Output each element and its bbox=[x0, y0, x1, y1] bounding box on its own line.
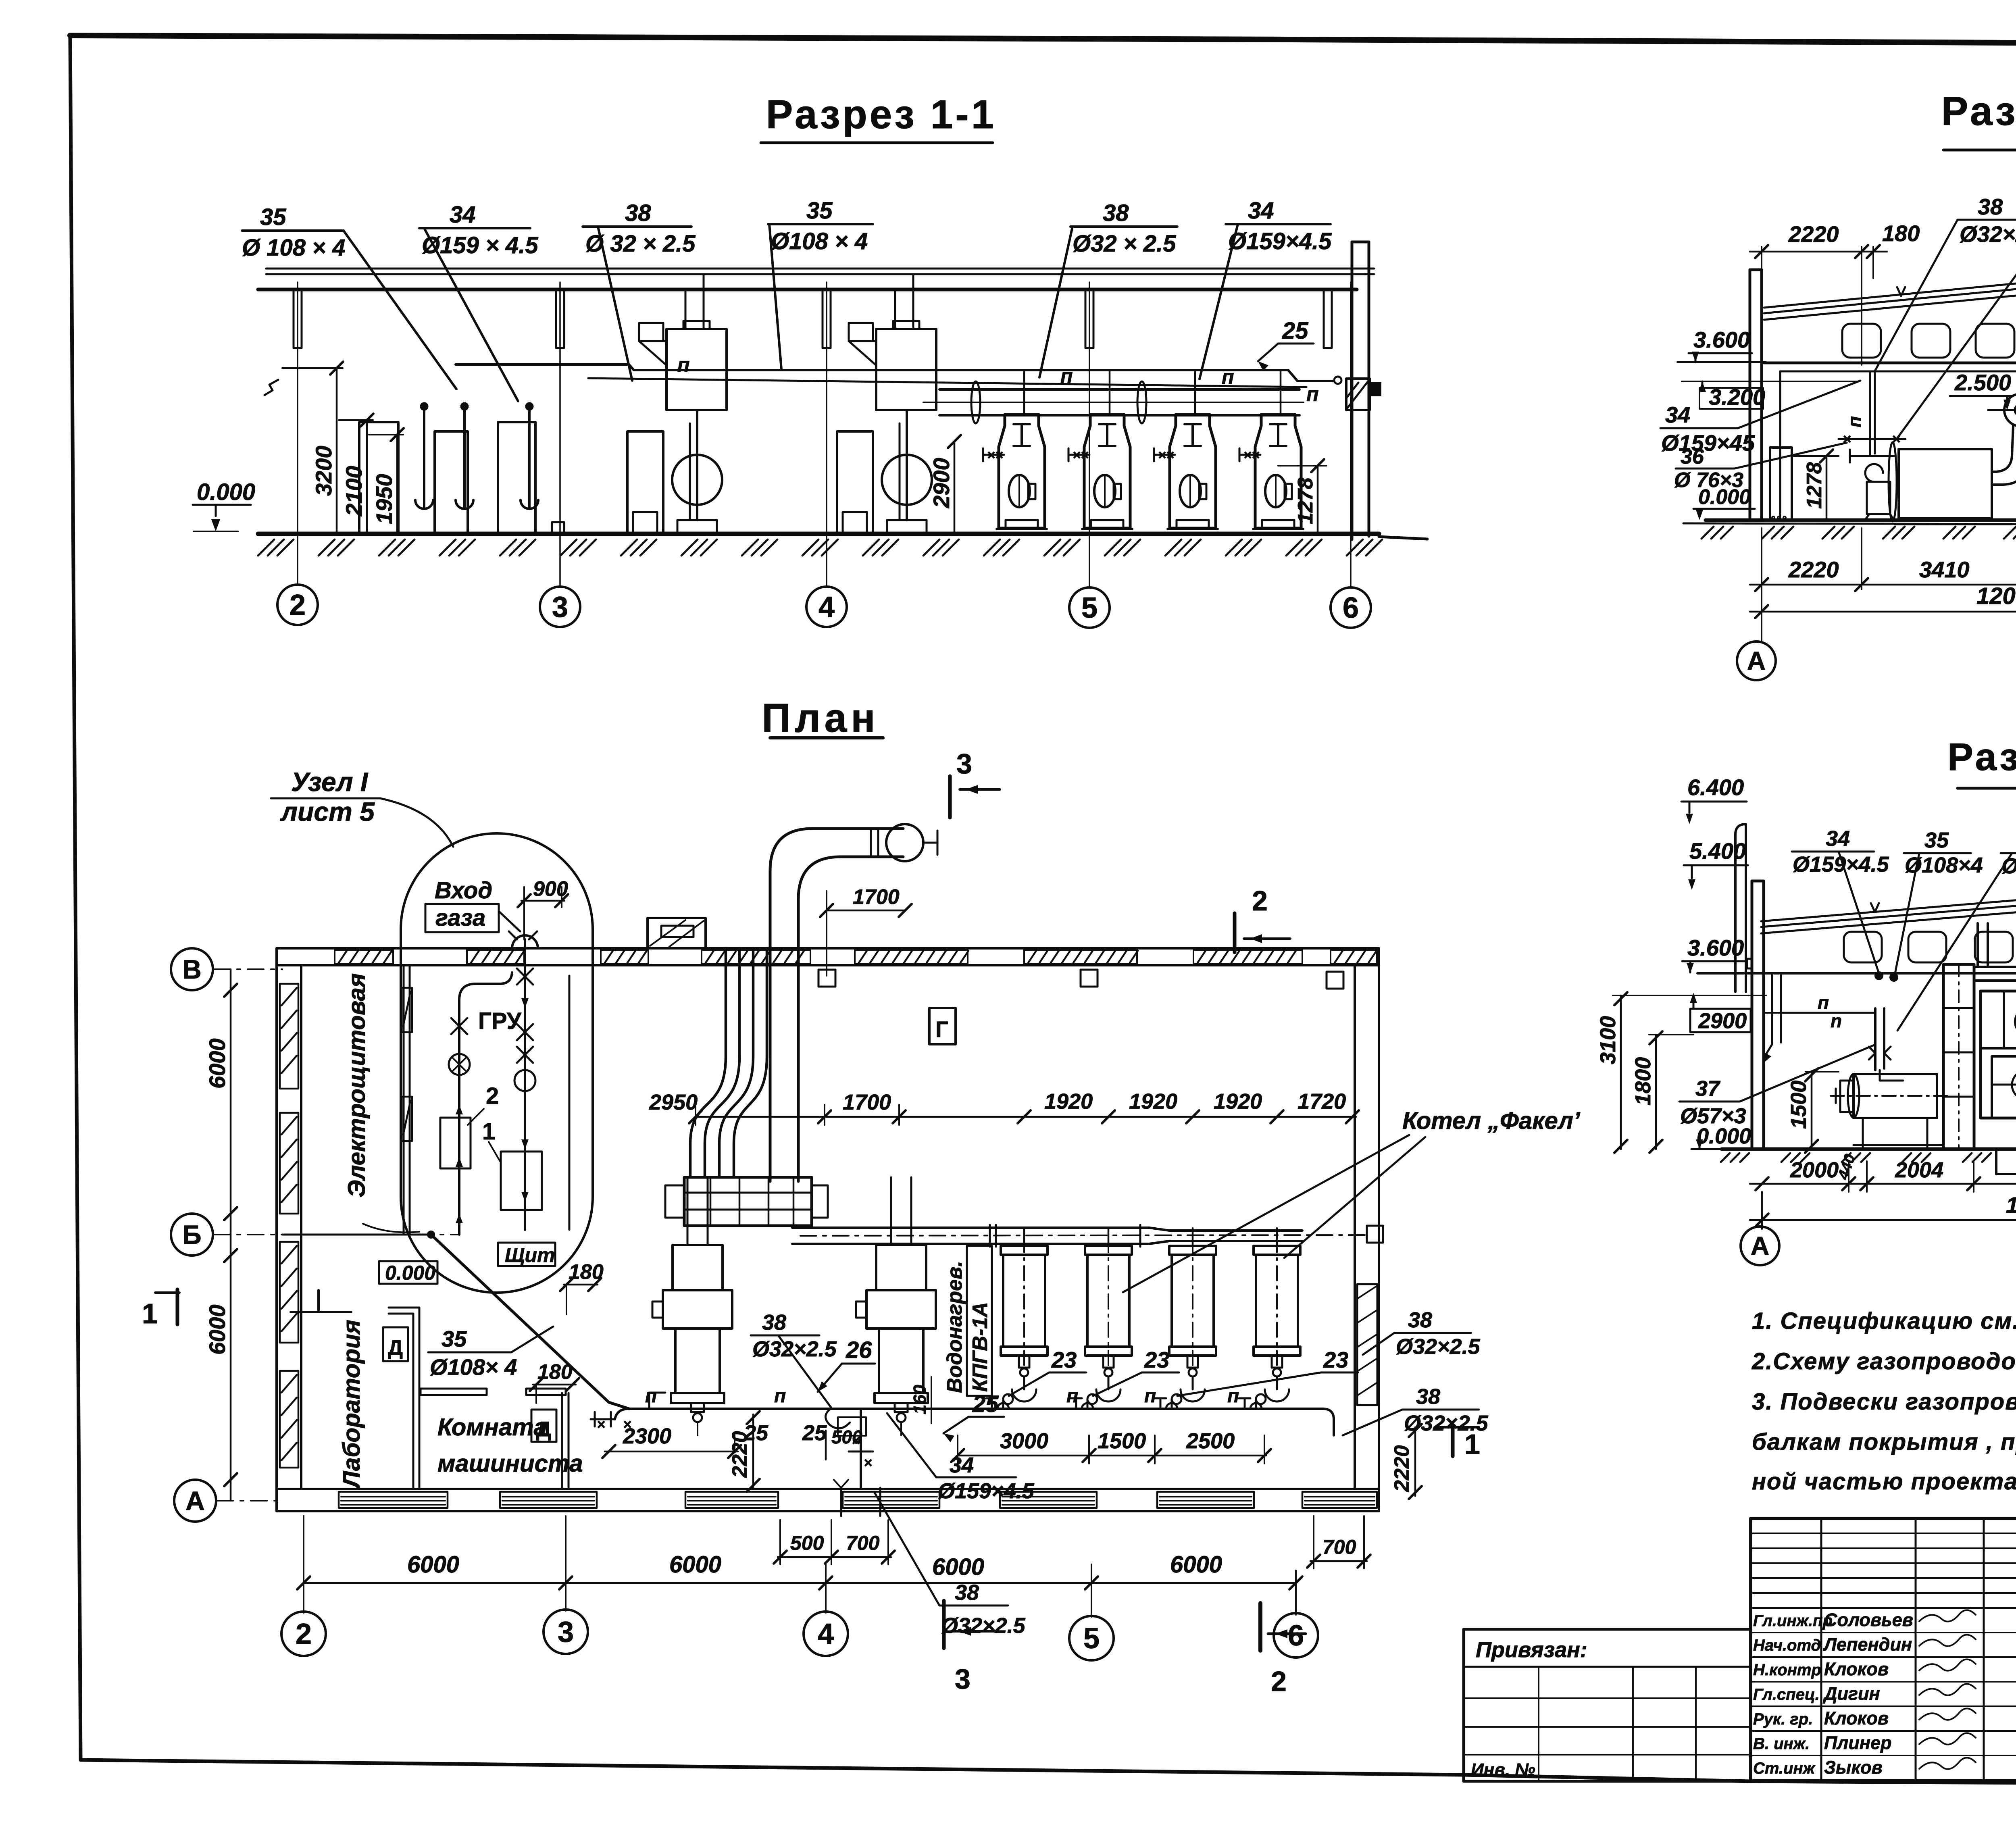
svg-text:Котел „Факел’: Котел „Факел’ bbox=[1402, 1107, 1581, 1134]
heater label KPGV bbox=[943, 1246, 992, 1396]
label 37 D57x3 bbox=[1679, 1045, 1874, 1128]
label 35 D108x4 (2) bbox=[768, 198, 873, 369]
label 40 D25x2.5 (3-3) bbox=[1897, 828, 2016, 1031]
svg-text:Нач.отд: Нач.отд bbox=[1753, 1637, 1821, 1654]
water heater 1 (plan) bbox=[652, 1177, 732, 1435]
flue duct riser (plan) bbox=[770, 824, 937, 1181]
svg-text:34: 34 bbox=[1248, 198, 1274, 224]
svg-text:35: 35 bbox=[260, 204, 286, 230]
ceiling line 3-3 bbox=[1697, 972, 2016, 975]
svg-text:Разрез 1-1: Разрез 1-1 bbox=[766, 92, 996, 137]
section mark 1 (right) bbox=[1435, 1426, 1480, 1460]
dim 12000 (3-3) bbox=[1750, 1192, 2016, 1231]
section mark 2 (bottom) bbox=[1260, 1603, 1306, 1697]
roof slab band 3-3 bbox=[1761, 900, 2016, 933]
left parapet bbox=[1735, 824, 1746, 992]
plan left wall bbox=[277, 948, 301, 1511]
boiler block 3-3 bbox=[1943, 923, 2016, 1149]
level 3.200 bbox=[1682, 381, 1860, 410]
column circle 4 bbox=[806, 587, 847, 627]
svg-text:п: п bbox=[1818, 992, 1829, 1013]
svg-text:5.400: 5.400 bbox=[1689, 838, 1746, 864]
svg-text:38: 38 bbox=[1978, 194, 2003, 219]
svg-text:2: 2 bbox=[1271, 1666, 1287, 1697]
label 40 D25x25 (2-2) bbox=[1897, 195, 2016, 438]
dim row 2950/1700/1920 bbox=[649, 1089, 1359, 1125]
svg-text:1. Спецификацию см. лист: 1. Спецификацию см. лист 2 . bbox=[1752, 1308, 2016, 1334]
header centerline bbox=[800, 1235, 1369, 1236]
svg-text:×: × bbox=[1166, 448, 1174, 463]
bottom column circle 4 bbox=[804, 1612, 848, 1656]
svg-text:6000: 6000 bbox=[204, 1304, 230, 1355]
bottom dims 3-3 bbox=[1750, 1152, 2016, 1192]
svg-text:×: × bbox=[1892, 431, 1900, 447]
svg-text:Ø32×2.5: Ø32×2.5 bbox=[1396, 1335, 1481, 1359]
svg-text:1800: 1800 bbox=[1631, 1057, 1655, 1106]
svg-text:35: 35 bbox=[806, 198, 833, 224]
column axis lines bbox=[298, 282, 1351, 587]
label 38 D32x2.5 (plan left) bbox=[751, 1310, 837, 1408]
svg-text:1920: 1920 bbox=[1044, 1089, 1093, 1114]
svg-text:38: 38 bbox=[1416, 1385, 1440, 1409]
svg-text:×: × bbox=[987, 448, 995, 463]
svg-text:Дигин: Дигин bbox=[1822, 1683, 1880, 1704]
level 6.400 bbox=[1681, 775, 1747, 824]
svg-text:35: 35 bbox=[1924, 828, 1949, 852]
svg-text:Узел I: Узел I bbox=[291, 767, 369, 797]
label 34 D159x4.5 (plan) bbox=[887, 1413, 1035, 1503]
svg-text:n: n bbox=[1831, 1010, 1842, 1031]
labels 23 bbox=[1009, 1347, 1358, 1396]
svg-text:35: 35 bbox=[442, 1326, 467, 1351]
level box 0.000 bbox=[379, 1261, 437, 1284]
svg-text:1720: 1720 bbox=[1297, 1089, 1346, 1114]
burner pump unit bbox=[1831, 1074, 1947, 1149]
gas inlet label bbox=[425, 877, 520, 932]
svg-text:3.600: 3.600 bbox=[1687, 935, 1744, 960]
svg-text:1278: 1278 bbox=[1803, 462, 1826, 509]
svg-text:Инв. №: Инв. № bbox=[1471, 1760, 1535, 1780]
axis row V bbox=[214, 968, 282, 970]
roof openings bbox=[1842, 324, 2016, 358]
svg-text:п: п bbox=[1222, 366, 1234, 388]
svg-text:×: × bbox=[597, 1416, 605, 1433]
interior wall lines bbox=[1780, 371, 2016, 520]
svg-text:38: 38 bbox=[762, 1310, 786, 1335]
dim 900 bbox=[518, 877, 568, 939]
boxed level 2900 bbox=[1690, 993, 1781, 1033]
svg-text:38: 38 bbox=[1103, 200, 1129, 226]
svg-text:3: 3 bbox=[955, 1663, 971, 1695]
svg-text:Ø108 × 4: Ø108 × 4 bbox=[771, 228, 868, 254]
svg-text:лист 5: лист 5 bbox=[280, 797, 375, 827]
svg-text:5: 5 bbox=[1083, 1622, 1100, 1655]
svg-text:0.000: 0.000 bbox=[197, 479, 255, 505]
title block bbox=[1464, 1518, 2016, 1845]
svg-text:1500: 1500 bbox=[1787, 1081, 1811, 1129]
svg-text:2: 2 bbox=[296, 1618, 312, 1650]
boiler connections to gas line bbox=[986, 1398, 1262, 1409]
svg-text:6.400: 6.400 bbox=[1687, 775, 1744, 800]
heater riser pipes bbox=[685, 274, 913, 329]
label 25 (plan) bbox=[943, 1391, 1004, 1442]
node I label bbox=[271, 767, 453, 847]
vertical dim 1278 bbox=[1278, 459, 1327, 533]
ceiling beam line bbox=[1764, 363, 2016, 371]
label 35 D108x4 bbox=[242, 204, 456, 389]
label 34 D159x4.5 (2) bbox=[1200, 198, 1332, 379]
svg-text:Комната: Комната bbox=[437, 1414, 547, 1441]
water heater unit 2 (elevation) bbox=[837, 321, 936, 533]
svg-text:6000: 6000 bbox=[932, 1554, 984, 1580]
svg-text:180: 180 bbox=[1882, 221, 1920, 246]
svg-text:2100: 2100 bbox=[341, 466, 367, 516]
svg-text:машиниста: машиниста bbox=[437, 1450, 583, 1477]
labels 25 25 500 bbox=[744, 1421, 862, 1460]
svg-text:3. Подвески газопроводов кре: 3. Подвески газопроводов крепить к метал… bbox=[1752, 1389, 2016, 1415]
svg-text:1: 1 bbox=[142, 1298, 158, 1329]
label 38 D32x2.5 (bottom центр) bbox=[874, 1492, 1026, 1638]
svg-text:3.600: 3.600 bbox=[1693, 327, 1750, 352]
label 34 D159x45 bbox=[1660, 381, 1860, 456]
svg-text:А: А bbox=[1747, 646, 1766, 675]
svg-text:38: 38 bbox=[955, 1581, 979, 1605]
svg-text:Ø159×45: Ø159×45 bbox=[1661, 430, 1755, 456]
svg-text:×: × bbox=[1158, 448, 1166, 463]
svg-text:38: 38 bbox=[1408, 1308, 1432, 1332]
svg-text:37: 37 bbox=[1695, 1077, 1721, 1101]
svg-text:×: × bbox=[995, 448, 1003, 463]
svg-text:Ø108× 4: Ø108× 4 bbox=[430, 1354, 517, 1380]
svg-text:Вход: Вход bbox=[435, 877, 492, 904]
svg-text:25: 25 bbox=[802, 1421, 827, 1445]
svg-text:3000: 3000 bbox=[1000, 1429, 1048, 1453]
boiler Fakel 2 (plan) bbox=[1085, 1228, 1132, 1404]
label 38 D32x2.5 (right top) bbox=[1363, 1308, 1481, 1359]
vertical dim 2220 left bbox=[728, 1411, 760, 1492]
view title: Razrez 1-1 bbox=[761, 92, 996, 143]
gas pipe bundle bbox=[690, 948, 767, 1177]
svg-text:п: п bbox=[1060, 365, 1073, 387]
svg-text:В. инж.: В. инж. bbox=[1753, 1735, 1810, 1753]
gas pipe to plant (diagonal) bbox=[339, 1224, 629, 1409]
section 1-1 floor line bbox=[258, 534, 1427, 539]
gas riser pipe bbox=[1839, 371, 1906, 462]
valve group left bbox=[591, 1393, 665, 1433]
boiler Fakel 1 (plan) bbox=[1001, 1228, 1048, 1404]
svg-text:2900: 2900 bbox=[929, 458, 954, 508]
svg-text:Ø32×2.5: Ø32×2.5 bbox=[941, 1614, 1026, 1638]
svg-text:Б: Б bbox=[182, 1220, 201, 1249]
label 38 D32x2.5 (2) bbox=[1039, 200, 1177, 377]
floor bbox=[1683, 520, 2016, 525]
manifold assembly bbox=[665, 1177, 828, 1226]
svg-text:3: 3 bbox=[558, 1616, 574, 1648]
partition lab wall bbox=[389, 1308, 419, 1489]
axis row B bbox=[214, 1234, 460, 1235]
roof drains bbox=[818, 970, 1343, 989]
bottom column circle 6 bbox=[1274, 1613, 1318, 1658]
svg-text:1: 1 bbox=[482, 1118, 495, 1145]
svg-text:1920: 1920 bbox=[1214, 1089, 1262, 1114]
svg-text:Разрез 2-2: Разрез 2-2 bbox=[1941, 89, 2016, 134]
svg-text:6: 6 bbox=[1288, 1620, 1304, 1652]
svg-text:3: 3 bbox=[552, 591, 568, 623]
wall tee near B row bbox=[291, 1290, 351, 1312]
dim 700 right bbox=[1307, 1516, 1370, 1568]
svg-text:2: 2 bbox=[1252, 885, 1268, 916]
svg-text:Плинер: Плинер bbox=[1824, 1733, 1892, 1753]
svg-text:газа: газа bbox=[435, 905, 485, 931]
partition machinist room bbox=[383, 1327, 569, 1489]
grid circle A bbox=[174, 1480, 216, 1522]
svg-text:Ø159×4.5: Ø159×4.5 bbox=[938, 1479, 1035, 1503]
svg-text:1: 1 bbox=[1464, 1429, 1480, 1460]
svg-text:2300: 2300 bbox=[623, 1424, 671, 1448]
level 0.000 bbox=[1693, 485, 1755, 520]
svg-text:Разрез 3-3: Разрез 3-3 bbox=[1947, 735, 2016, 779]
dim 2300 bbox=[602, 1424, 741, 1458]
svg-text:700: 700 bbox=[846, 1532, 880, 1554]
svg-text:Ст.инж: Ст.инж bbox=[1753, 1760, 1816, 1777]
node I capsule boundary bbox=[401, 833, 593, 1293]
svg-text:А: А bbox=[185, 1486, 205, 1516]
svg-text:2220: 2220 bbox=[1788, 557, 1839, 582]
boiler Fakel 2 (elevation) bbox=[1068, 370, 1132, 529]
roof openings 3-3 bbox=[1844, 932, 2016, 962]
grid circle B bbox=[171, 1214, 213, 1256]
kotel Fakel label bbox=[1123, 1107, 1581, 1292]
svg-text:2: 2 bbox=[289, 589, 306, 621]
svg-text:34: 34 bbox=[950, 1453, 974, 1477]
level 0.000 (3-3) bbox=[1691, 1124, 1753, 1149]
svg-text:1700: 1700 bbox=[853, 885, 900, 909]
label 25 bbox=[1258, 318, 1314, 371]
svg-text:26: 26 bbox=[846, 1337, 872, 1363]
label 36 D76x3 bbox=[1674, 443, 1847, 492]
svg-text:Лаборатория: Лаборатория bbox=[338, 1320, 365, 1489]
section mark 3 (top) bbox=[950, 748, 1000, 818]
svg-text:500: 500 bbox=[831, 1426, 862, 1447]
water heater unit 1 (elevation) bbox=[627, 321, 727, 533]
vertical dim 2220 right bbox=[1390, 1424, 1422, 1499]
svg-text:2900: 2900 bbox=[1698, 1009, 1747, 1033]
grid circle A (2-2) bbox=[1737, 641, 1776, 680]
svg-text:3100: 3100 bbox=[1596, 1016, 1620, 1064]
floor block bbox=[552, 522, 564, 533]
svg-text:×: × bbox=[864, 1454, 872, 1471]
label 38 D32x2.5 bbox=[583, 200, 696, 381]
plan top wall bbox=[277, 948, 1379, 965]
section mark 3 (bottom) bbox=[944, 1601, 996, 1695]
section mark 1 (left) bbox=[142, 1289, 179, 1329]
svg-text:2.500: 2.500 bbox=[1954, 370, 2011, 395]
GRU piping bbox=[440, 931, 569, 1235]
vertical dim 2900 bbox=[929, 435, 961, 533]
dim 500 700 bottom bbox=[774, 1520, 895, 1564]
svg-text:2004: 2004 bbox=[1895, 1158, 1943, 1182]
svg-text:12000: 12000 bbox=[1976, 583, 2016, 609]
label 38 D32x2.5 (right bottom) bbox=[1343, 1385, 1489, 1435]
svg-text:23: 23 bbox=[1144, 1347, 1169, 1372]
svg-text:12000: 12000 bbox=[2006, 1192, 2016, 1218]
svg-text:700: 700 bbox=[1322, 1536, 1356, 1558]
svg-text:п: п bbox=[677, 354, 690, 376]
dim 12000 (2-2) bbox=[1750, 525, 2016, 641]
column circle 2 bbox=[277, 585, 318, 625]
purge line p bbox=[588, 354, 1319, 406]
boiler Fakel 1 (elevation) bbox=[983, 370, 1047, 529]
svg-text:Гл.инж.пр: Гл.инж.пр bbox=[1753, 1612, 1833, 1630]
boiler Fakel 4 (elevation) bbox=[1239, 370, 1303, 529]
svg-text:Г: Г bbox=[935, 1016, 948, 1042]
svg-text:2220: 2220 bbox=[1390, 1445, 1414, 1492]
label 35 D108x4 (plan) bbox=[428, 1326, 553, 1380]
svg-text:5: 5 bbox=[1081, 592, 1098, 624]
ground hatching bbox=[258, 539, 1382, 556]
section mark 2 (top) bbox=[1235, 885, 1290, 952]
svg-text:Клоков: Клоков bbox=[1824, 1708, 1889, 1728]
water collector pipe bbox=[923, 381, 1304, 423]
svg-text:п: п bbox=[1144, 1385, 1156, 1407]
svg-text:38: 38 bbox=[625, 200, 651, 226]
svg-text:2950: 2950 bbox=[649, 1090, 698, 1114]
left column 3-3 bbox=[1752, 881, 1764, 1149]
svg-text:6000: 6000 bbox=[669, 1551, 721, 1578]
svg-text:×: × bbox=[1073, 448, 1081, 463]
grid circle V bbox=[171, 948, 213, 990]
svg-text:6000: 6000 bbox=[204, 1038, 230, 1089]
plan right wall bbox=[1355, 948, 1379, 1511]
svg-text:Ø32×2.5: Ø32×2.5 bbox=[1960, 221, 2016, 247]
svg-text:п: п bbox=[774, 1385, 786, 1407]
signature table bbox=[1751, 1518, 2016, 1781]
vertical dims 3200/2100/1950 bbox=[282, 362, 404, 533]
svg-text:160: 160 bbox=[910, 1385, 930, 1414]
floor 3-3 bbox=[1722, 1149, 2016, 1174]
plan bottom wall bbox=[277, 1489, 1379, 1511]
bottom dim row 6000 x4 bbox=[297, 1516, 1302, 1617]
svg-text:×: × bbox=[1243, 448, 1252, 463]
svg-text:36: 36 bbox=[1681, 445, 1704, 469]
svg-text:Ø32 × 2.5: Ø32 × 2.5 bbox=[1073, 231, 1176, 257]
label 34 D159x4.5 bbox=[419, 202, 538, 401]
vertical dim 1800 bbox=[1631, 1031, 1693, 1153]
tank row bbox=[359, 422, 535, 533]
svg-text:25: 25 bbox=[1282, 318, 1308, 344]
heater block bbox=[1865, 442, 2012, 524]
svg-text:2: 2 bbox=[486, 1083, 499, 1109]
cabinet bbox=[1770, 448, 1792, 520]
svg-text:1950: 1950 bbox=[371, 474, 397, 524]
svg-text:Рук. гр.: Рук. гр. bbox=[1753, 1710, 1813, 1728]
partition electro room bbox=[282, 965, 412, 1235]
svg-text:2.Схему газопроводов котельн: 2.Схему газопроводов котельной см лист 3 bbox=[1752, 1348, 2016, 1374]
svg-text:1278: 1278 bbox=[1294, 477, 1317, 524]
svg-text:Н.контр: Н.контр bbox=[1753, 1661, 1821, 1679]
svg-text:План: План bbox=[762, 696, 879, 741]
svg-text:0.000: 0.000 bbox=[1698, 485, 1751, 509]
svg-text:балкам покрытия , предусмотре: балкам покрытия , предусмотренным строит… bbox=[1752, 1429, 2016, 1455]
label 26 bbox=[818, 1337, 875, 1392]
section 1-1 right wall bbox=[1346, 242, 1381, 539]
svg-text:Соловьев: Соловьев bbox=[1824, 1610, 1913, 1630]
svg-text:4: 4 bbox=[818, 591, 835, 623]
roof slab band bbox=[1764, 282, 2016, 320]
dim 3000 1500 2500 bbox=[951, 1429, 1271, 1464]
svg-text:6000: 6000 bbox=[407, 1551, 459, 1578]
column circle 5 bbox=[1069, 587, 1110, 628]
svg-text:ной частью проекта .: ной частью проекта . bbox=[1752, 1468, 2016, 1495]
svg-text:34: 34 bbox=[1665, 402, 1690, 427]
svg-text:3200: 3200 bbox=[311, 446, 336, 496]
svg-text:3: 3 bbox=[956, 748, 972, 779]
bottom stub pipes through wall bbox=[834, 1480, 880, 1516]
view title: Plan bbox=[762, 696, 883, 741]
svg-text:23: 23 bbox=[1323, 1347, 1348, 1372]
label 35 D108x4 (3-3) bbox=[1895, 828, 1983, 973]
left pipes 3-3 bbox=[1763, 972, 1903, 1081]
label 34 D159x4.5 (3-3) bbox=[1792, 827, 1889, 971]
bottom column circle 5 bbox=[1069, 1616, 1114, 1660]
svg-text:А: А bbox=[1751, 1231, 1769, 1260]
dip pipes bbox=[415, 403, 538, 509]
svg-text:п: п bbox=[1306, 383, 1319, 406]
svg-text:2500: 2500 bbox=[1186, 1429, 1235, 1453]
svg-text:п: п bbox=[1227, 1385, 1239, 1407]
svg-text:4: 4 bbox=[818, 1618, 834, 1650]
svg-text:2000: 2000 bbox=[1790, 1158, 1839, 1182]
svg-text:900: 900 bbox=[533, 877, 568, 901]
column circle 3 bbox=[540, 587, 580, 627]
bottom column circle 3 bbox=[544, 1610, 588, 1654]
plan entrance porch bbox=[648, 918, 706, 948]
boiler Fakel 3 (elevation) bbox=[1154, 370, 1218, 529]
label 38 D32x2.5 (2-2) bbox=[1875, 194, 2016, 371]
svg-text:0.000: 0.000 bbox=[385, 1262, 435, 1284]
view title: Razrez 3-3 bbox=[1947, 735, 2016, 788]
svg-text:6: 6 bbox=[1343, 592, 1359, 624]
room label machinist bbox=[437, 1414, 583, 1477]
boiler Fakel 3 (plan) bbox=[1169, 1228, 1216, 1404]
top dims 2220 180 bbox=[1750, 221, 1920, 365]
bottom column circle 2 bbox=[281, 1612, 326, 1656]
svg-text:КПГВ-1А: КПГВ-1А bbox=[968, 1302, 992, 1392]
svg-text:1500: 1500 bbox=[1098, 1429, 1146, 1453]
svg-text:25: 25 bbox=[972, 1391, 999, 1417]
svg-text:180: 180 bbox=[537, 1360, 573, 1384]
svg-text:Ø159×4.5: Ø159×4.5 bbox=[1228, 228, 1332, 254]
svg-text:1920: 1920 bbox=[1129, 1089, 1177, 1114]
view title: Razrez 2-2 bbox=[1941, 89, 2016, 150]
привязан table bbox=[1464, 1629, 1751, 1781]
svg-text:Гл.спец.: Гл.спец. bbox=[1753, 1686, 1820, 1703]
svg-text:2220: 2220 bbox=[1788, 221, 1839, 247]
left column bbox=[1750, 270, 1762, 520]
svg-text:Зыков: Зыков bbox=[1824, 1757, 1883, 1778]
svg-text:×: × bbox=[1843, 431, 1851, 447]
vertical dim 6000 x2 bbox=[204, 969, 237, 1501]
svg-text:6000: 6000 bbox=[1170, 1551, 1222, 1578]
svg-text:1700: 1700 bbox=[843, 1090, 891, 1114]
level 3.600 bbox=[1677, 327, 1766, 362]
flue fan and duct bbox=[1992, 394, 2016, 519]
svg-text:Лепендин: Лепендин bbox=[1823, 1634, 1912, 1655]
level 5.400 bbox=[1684, 838, 1748, 890]
gas header pipe bbox=[456, 364, 1341, 384]
notes text bbox=[1752, 1308, 2016, 1495]
dim 1278 vertical bbox=[1792, 450, 1839, 520]
